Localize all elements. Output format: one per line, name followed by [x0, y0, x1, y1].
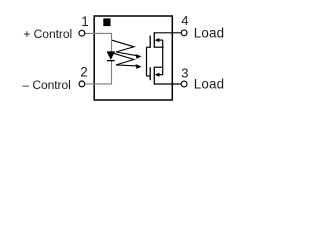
svg-text:– Control: – Control — [22, 78, 70, 92]
wire LED cathode to pin2 — [85, 61, 111, 84]
pin 2 terminal circle — [79, 81, 85, 87]
photon arrow 1 head — [136, 54, 142, 59]
MOSFET Q2 substrate arrow line — [158, 74, 163, 76]
svg-text:Load: Load — [194, 77, 224, 92]
MOSFET Q1 channel — [153, 32, 155, 48]
package outline box — [94, 16, 172, 100]
LED D1 cathode bar — [107, 60, 115, 61]
wire pin1 to LED anode — [85, 33, 111, 52]
MOSFET Q2 gate bar — [149, 67, 151, 80]
photon arrow 2 (zigzag) — [112, 53, 137, 66]
svg-text:1: 1 — [81, 14, 89, 29]
svg-text:Load: Load — [194, 25, 224, 40]
svg-text:3: 3 — [181, 66, 188, 81]
MOSFET Q1 source line — [154, 46, 163, 48]
gate connector line (shared gate node) — [146, 47, 148, 76]
MOSFET Q1 substrate arrow line — [158, 39, 163, 41]
pin 1 polarity mark (filled square) — [103, 18, 110, 26]
pin 3 terminal circle — [181, 81, 187, 87]
photon arrow 1 (zigzag) — [112, 40, 137, 56]
pin 1 terminal circle — [79, 30, 85, 36]
MOSFET Q2 drain line to pin 3 — [154, 83, 180, 85]
MOSFET Q1 substrate arrowhead — [155, 38, 160, 42]
pin 4 terminal circle — [181, 30, 187, 36]
MOSFET Q2 substrate arrowhead — [155, 73, 160, 77]
MOSFET Q2 source line — [154, 66, 163, 68]
svg-text:4: 4 — [181, 13, 188, 28]
MOSFET Q2 channel — [153, 67, 155, 85]
common source / substrate vertical — [162, 40, 164, 75]
LED D1 triangle — [107, 52, 115, 60]
MOSFET Q1 gate bar — [149, 36, 151, 48]
MOSFET Q2 gate lead — [147, 75, 151, 77]
svg-text:+ Control: + Control — [23, 27, 72, 41]
photon arrow 2 head — [136, 64, 142, 69]
MOSFET Q1 gate lead — [147, 46, 151, 48]
MOSFET Q1 drain line to pin 4 — [154, 32, 180, 34]
svg-text:2: 2 — [80, 65, 88, 80]
